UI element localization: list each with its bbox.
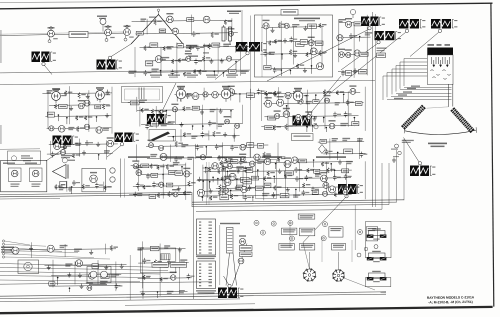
wire [170, 145, 172, 162]
component box [49, 282, 55, 286]
component box [150, 43, 158, 47]
wire [404, 86, 452, 88]
resistor R80 [218, 190, 226, 196]
output transformer T [367, 251, 387, 262]
tube V75 [86, 282, 93, 290]
socket contact [433, 77, 436, 78]
transformer enclosure [366, 222, 392, 258]
waveform callout marker [308, 112, 311, 115]
wire [339, 53, 366, 55]
resistor R61 [302, 183, 310, 188]
capacitor C30 [360, 152, 368, 158]
ground [120, 264, 124, 269]
tube V37 [224, 116, 231, 124]
waveform oscillogram [399, 19, 425, 29]
resistor R68 [143, 275, 151, 280]
resistor R73 [157, 166, 165, 170]
component box [308, 24, 317, 28]
wire [343, 94, 345, 102]
tube V48 [212, 92, 219, 99]
resistor R57 [263, 176, 271, 181]
tube V13 [155, 56, 162, 63]
tube V (IF amp) [176, 86, 191, 102]
wire [241, 105, 243, 124]
control box [329, 227, 343, 237]
tube V84 [224, 176, 231, 186]
wire [323, 152, 365, 155]
wire [111, 87, 113, 134]
waveform callout marker [108, 56, 111, 59]
control pot [358, 230, 363, 235]
wire [337, 152, 339, 160]
tube V40 [158, 145, 163, 150]
tube V29 [49, 126, 54, 131]
resistor R42 [323, 90, 331, 95]
antenna symbol [131, 15, 183, 45]
label [293, 91, 299, 94]
wire [334, 170, 336, 176]
wire [329, 32, 406, 94]
capacitor C25 [257, 89, 265, 95]
tube V32 [96, 127, 102, 133]
wire [202, 181, 204, 189]
audio output box [82, 168, 105, 191]
power transformer [18, 260, 39, 274]
waveform oscillogram [361, 17, 385, 27]
tube V27 [78, 100, 85, 109]
CRT socket body [427, 55, 453, 85]
wire [261, 15, 263, 77]
tube V61 [249, 161, 255, 167]
audio module box [1, 161, 47, 192]
label [141, 19, 147, 22]
ground [232, 133, 236, 138]
wire [261, 26, 324, 29]
label [187, 157, 194, 160]
tube V9 [166, 13, 173, 23]
capacitor C46 [187, 274, 195, 280]
tube V24 [345, 49, 352, 57]
ground [68, 187, 72, 192]
tube V58 [295, 114, 301, 120]
wire [74, 261, 76, 284]
wire [250, 16, 252, 159]
capacitor C45 [167, 259, 175, 265]
resistor R45 [285, 124, 293, 130]
wire [387, 99, 452, 101]
wire [261, 90, 263, 121]
resistor R21 [319, 50, 327, 56]
wire [111, 44, 131, 57]
component box [151, 122, 159, 126]
component box [315, 41, 323, 45]
label [152, 69, 159, 72]
wire [159, 244, 161, 296]
tube V50 [285, 92, 291, 98]
component box [192, 106, 199, 110]
tube V3 [124, 26, 131, 36]
capacitor C50 [152, 182, 160, 188]
wire [242, 167, 244, 199]
bus [0, 292, 386, 296]
wire [233, 253, 237, 286]
capacitor C31 [95, 183, 103, 189]
label PICTURE TUBE [428, 143, 447, 145]
wire [352, 15, 354, 18]
resistor R56 [221, 177, 229, 182]
tube V38 [235, 123, 240, 128]
tube V (rectifier) [101, 271, 108, 278]
tube V (IF amp) [221, 86, 236, 102]
wire [330, 164, 332, 172]
bus [125, 304, 255, 306]
label [332, 138, 338, 141]
control box [299, 228, 314, 236]
wire [52, 260, 54, 288]
wire [47, 91, 49, 129]
coil [141, 88, 143, 100]
wire [287, 94, 289, 131]
resistor R24 [78, 92, 86, 98]
section label [128, 156, 150, 158]
width coil box [149, 130, 176, 142]
transformer base [366, 278, 391, 287]
wire [313, 160, 315, 167]
wire [0, 148, 40, 151]
capacitor C [395, 144, 399, 148]
tube V15 [227, 56, 232, 61]
tube V5 [32, 170, 39, 177]
wire [137, 248, 185, 251]
electron gun element [438, 57, 442, 67]
component box [246, 168, 253, 173]
waveform callout marker [246, 52, 249, 55]
page edge [0, 0, 300, 2]
label [257, 161, 264, 164]
wire [203, 44, 205, 70]
wire [97, 260, 99, 284]
capacitor C29 [325, 149, 333, 155]
capacitor C9 [273, 67, 281, 73]
tube V39 [148, 140, 155, 148]
tube V17 [284, 23, 289, 28]
wire [323, 118, 325, 123]
capacitor C27 [333, 112, 341, 118]
wire [318, 141, 364, 144]
wire [337, 36, 370, 38]
resistor R67 [154, 260, 162, 265]
wire [311, 66, 313, 74]
wire [375, 14, 377, 207]
waveform callout marker [42, 62, 45, 65]
wire [129, 255, 131, 300]
resistor R30 [63, 144, 71, 149]
resistor R27 [75, 116, 83, 121]
wire [225, 167, 227, 195]
ground [278, 169, 282, 174]
label [293, 194, 300, 197]
label GREEN BLUE RED [428, 44, 435, 46]
waveform callout marker [368, 27, 371, 30]
component box [377, 53, 386, 58]
wire [338, 70, 367, 72]
waveform oscillogram [293, 116, 317, 126]
control box [366, 227, 378, 241]
wire [201, 105, 203, 126]
ground [273, 92, 277, 97]
wire [392, 69, 427, 94]
wire [141, 241, 143, 288]
capacitor C21 [174, 156, 182, 162]
resistor R37 [225, 157, 233, 162]
IF transformer box [30, 168, 43, 182]
label [150, 75, 162, 76]
wire [261, 125, 358, 126]
tube V21 [345, 18, 352, 27]
ground [338, 160, 342, 165]
wire [359, 138, 361, 159]
resistor R36 [175, 141, 183, 147]
wire [71, 187, 73, 194]
label video amp [186, 45, 197, 47]
capacitor C8 [263, 51, 271, 57]
tube V76 [170, 272, 177, 281]
waveform oscillogram [147, 114, 171, 124]
sync module box [256, 160, 277, 199]
ground [209, 188, 213, 193]
label [104, 150, 110, 153]
capacitor C26 [346, 100, 354, 106]
section label [262, 156, 282, 158]
label [340, 123, 348, 126]
wire [0, 280, 140, 282]
wire [136, 97, 138, 112]
wire [138, 277, 192, 280]
wire [205, 147, 207, 156]
resistor R74 [166, 164, 174, 170]
wire [133, 185, 193, 188]
capacitor C10 [363, 20, 371, 26]
component box [92, 264, 99, 269]
wire [227, 171, 229, 177]
wire [172, 137, 174, 141]
wire [262, 93, 360, 94]
wire [57, 115, 59, 121]
bus [0, 299, 240, 302]
component box [296, 42, 304, 47]
label [346, 161, 353, 164]
resistor R11 [202, 56, 210, 62]
wire [49, 141, 51, 155]
wire [57, 278, 59, 286]
tube V22 [337, 35, 343, 41]
label [103, 128, 109, 131]
component box [313, 100, 319, 104]
wire [5, 244, 46, 246]
component box [166, 183, 173, 187]
wire [216, 108, 218, 130]
component box [300, 40, 307, 45]
wire [192, 158, 194, 299]
wire [181, 167, 183, 176]
wire [293, 27, 295, 65]
wire [241, 10, 243, 42]
tube V80 [159, 182, 164, 187]
wire [0, 272, 160, 275]
resistor R17 [268, 41, 276, 46]
capacitor C1 [72, 180, 80, 186]
resistor R46 [294, 121, 302, 126]
wire [197, 190, 248, 193]
wire [391, 95, 452, 97]
waveform callout marker [377, 41, 380, 44]
tube V82 [212, 163, 218, 169]
wire [146, 19, 148, 34]
wire [69, 288, 71, 292]
IF transformer assembly [122, 87, 163, 103]
wire [354, 205, 356, 250]
ground [89, 250, 93, 255]
wire [281, 54, 283, 60]
wire [203, 167, 252, 170]
tube V57 [283, 108, 290, 118]
component box [280, 194, 289, 198]
wire [192, 126, 194, 130]
label [68, 127, 74, 130]
ground [47, 265, 51, 270]
wire [222, 73, 224, 77]
capacitor C38 [248, 185, 256, 191]
wire [326, 162, 328, 193]
wire [180, 87, 182, 101]
resistor R58 [284, 174, 292, 178]
electron gun element [432, 57, 436, 67]
label [339, 19, 346, 22]
resistor R47 [82, 184, 90, 189]
wire [219, 162, 353, 164]
tube V65 [229, 170, 236, 180]
wire [47, 152, 113, 155]
wire [5, 241, 30, 245]
wire [64, 244, 66, 257]
wire [163, 83, 177, 110]
label [269, 52, 275, 55]
control box [298, 214, 315, 219]
resistor R72 [150, 164, 158, 169]
control box [282, 228, 297, 234]
vert output transformer [227, 228, 234, 254]
label [191, 136, 197, 139]
resistor R55 [327, 168, 335, 173]
wire [147, 157, 285, 159]
wire [306, 127, 308, 132]
control pot [271, 221, 276, 226]
delay line [292, 134, 314, 141]
section label [218, 156, 246, 158]
component box [255, 186, 263, 190]
resistor R6 [163, 46, 171, 51]
wire [321, 236, 323, 262]
resistor R15 [278, 22, 286, 28]
component box [229, 69, 236, 73]
waveform callout marker [438, 29, 441, 32]
tube V69 [322, 191, 327, 196]
resistor R33 [151, 109, 159, 114]
component box [47, 112, 54, 117]
ground [303, 68, 307, 73]
control pot [288, 220, 293, 225]
wire [209, 182, 211, 189]
resistor R51 [208, 167, 216, 172]
waveform oscillogram [375, 31, 401, 40]
section label [316, 156, 346, 158]
resistor R77 [157, 192, 165, 198]
wire [264, 67, 323, 70]
wire [42, 92, 112, 95]
terminal strip [2, 240, 4, 242]
wire [233, 128, 235, 142]
wire [5, 247, 62, 251]
component box [252, 176, 259, 180]
wire [194, 144, 196, 159]
wire [103, 182, 105, 191]
coil [138, 88, 140, 100]
tube V47 [203, 92, 208, 97]
wire [344, 278, 375, 290]
wire [404, 59, 427, 87]
wire [66, 181, 68, 192]
label [210, 109, 216, 112]
ground [29, 246, 33, 251]
capacitor C2 [192, 31, 200, 37]
capacitor C28 [344, 111, 352, 117]
tube V59 [305, 111, 312, 119]
wire [252, 197, 254, 201]
label [111, 274, 119, 277]
component box [314, 169, 320, 173]
wire [324, 89, 326, 129]
section label [196, 156, 212, 158]
waveform callout marker [160, 110, 163, 113]
wire [168, 135, 240, 138]
wire [325, 128, 327, 133]
resistor R9 [171, 59, 179, 64]
capacitor C42 [302, 190, 310, 196]
resistor R34 [159, 110, 167, 115]
resistor R78 [168, 191, 176, 197]
tube V26 [53, 89, 60, 98]
wire [353, 118, 355, 127]
tube V6 [90, 172, 98, 183]
resistor R5 [144, 45, 152, 50]
resistor R19 [289, 49, 297, 55]
label vert output transformer [220, 223, 240, 224]
capacitor C40 [243, 195, 251, 201]
resistor R14 [199, 70, 207, 75]
wire [303, 198, 346, 243]
wire [315, 95, 317, 103]
bus [192, 200, 404, 202]
label [180, 259, 187, 262]
antenna feed wire [0, 33, 130, 36]
wire [139, 107, 141, 127]
wire [202, 126, 204, 130]
wire [213, 71, 215, 75]
capacitor C22 [217, 155, 225, 161]
tube V86 [223, 188, 228, 193]
deflection yoke band [401, 105, 426, 130]
waveform oscillogram [115, 133, 139, 143]
